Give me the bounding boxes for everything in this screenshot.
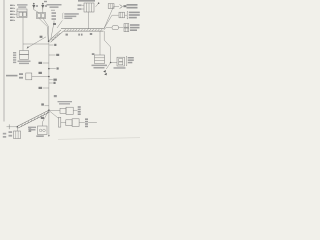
- wire right switch down to harness: [51, 21, 54, 40]
- harness wire number labels: [66, 33, 95, 55]
- junction ground: [48, 76, 50, 78]
- wire pair2 exit: [79, 121, 85, 123]
- wire pin to switch: [15, 13, 17, 15]
- connector ignition: [95, 55, 105, 64]
- label horn: [128, 57, 134, 63]
- wire pair1 exit: [73, 110, 77, 112]
- label row3: [130, 24, 140, 31]
- wire junction to horn: [111, 62, 117, 64]
- label front turn signal jumper: [64, 13, 79, 19]
- wire horizontal to main junction: [23, 43, 49, 45]
- connector mid-left (main/handlebar): [20, 51, 29, 55]
- tick labels 20 / 3: [49, 79, 53, 81]
- ground terminal box: [26, 73, 32, 80]
- label 27: [40, 36, 43, 38]
- tick label 23: [43, 62, 49, 64]
- wire row3 tap: [104, 28, 112, 30]
- horn connector: [117, 57, 125, 66]
- main harness band: [49, 29, 104, 43]
- lamp left front turn signal: [33, 3, 35, 10]
- multipin pin labels: [78, 4, 82, 9]
- bracket row2: [126, 12, 129, 19]
- wire junction to pair1: [49, 109, 60, 111]
- junction label 3: [48, 68, 50, 70]
- page edge artifact: [58, 138, 140, 140]
- label below horn: [114, 67, 126, 69]
- wire fan to right connectors: [104, 7, 119, 29]
- connector row2 inline: [119, 12, 125, 18]
- terminal chevrons bottom: [103, 70, 107, 76]
- label 21: [41, 117, 44, 119]
- label row1: [127, 4, 138, 9]
- label ground lead: [6, 75, 18, 77]
- label ignition connector: [92, 65, 108, 69]
- holder bar pair2: [58, 117, 60, 127]
- wire connector to junction: [43, 19, 49, 41]
- connector pair2: [66, 120, 72, 126]
- frame terminal bar: [8, 124, 10, 129]
- backbone wire down: [48, 41, 50, 110]
- wire 27 diagonal: [27, 37, 46, 48]
- right switch pin labels: [52, 12, 57, 20]
- label above pair1: [58, 101, 73, 105]
- battery harness band bottom: [17, 110, 49, 128]
- wire connector to junction: [39, 19, 48, 41]
- indicator lamps box: [38, 126, 48, 135]
- connector multipin (main to handlebar): [84, 3, 94, 12]
- label 6 with tick: [49, 44, 53, 46]
- hatch marks bottom band: [21, 111, 48, 127]
- page border left rule: [3, 0, 5, 122]
- wire battery connector down: [16, 127, 18, 131]
- wire to indicator lamps box: [43, 110, 49, 126]
- junction bottom: [48, 109, 50, 111]
- bracket horn: [125, 56, 128, 65]
- flag marker: [96, 2, 100, 6]
- tail end arrow: [48, 135, 50, 137]
- label row2: [129, 12, 140, 19]
- wire lamp to connector: [34, 10, 39, 13]
- wire to chevron stub: [106, 63, 110, 70]
- tick label 23 lower: [43, 87, 49, 89]
- wire ground to backbone: [32, 76, 49, 78]
- label below lamps box: [36, 135, 44, 137]
- wire to frame terminal: [10, 126, 18, 128]
- label 25: [39, 72, 42, 74]
- connector row3 pair: [124, 24, 129, 28]
- connector row1 inline: [108, 4, 114, 9]
- junction main: [48, 40, 50, 42]
- label RIGHT TURN SWITCH: [47, 4, 62, 11]
- label 24: [53, 23, 56, 25]
- connector pair1: [60, 108, 66, 113]
- terminal stripes pair2: [85, 118, 88, 127]
- connector front turn signals: [37, 13, 46, 19]
- wire junction to pair2: [49, 111, 59, 119]
- terminal row3 ring: [112, 26, 119, 30]
- label 23 row1: [123, 5, 126, 7]
- tick label 26: [49, 54, 56, 56]
- label main to handlebar harness: [0, 0, 1, 1]
- ground wire color codes: [19, 73, 23, 75]
- wire switch down: [22, 18, 24, 51]
- wire lamp to connector: [42, 10, 44, 13]
- harness hatch marks: [51, 29, 103, 41]
- wire drop to horn: [104, 31, 110, 62]
- label LEFT TURN SWITCH: [17, 4, 28, 8]
- labels battery pins: [3, 131, 12, 138]
- wire bar to pair2: [61, 122, 66, 124]
- connector battery: [14, 131, 21, 139]
- junction battery: [17, 126, 19, 128]
- backbone tail wire: [48, 110, 50, 136]
- label 24 small: [54, 95, 57, 97]
- wire multipin to harness: [88, 12, 90, 29]
- wire pair2 tail arrow: [88, 121, 97, 123]
- label left of lamps box: [28, 127, 36, 131]
- terminal row1 chevron: [120, 5, 123, 9]
- connector left turn switch: [17, 9, 27, 18]
- terminal stripes pair1: [78, 106, 81, 115]
- label handlebar harness caption: [63, 13, 65, 15]
- label right of battery connector: [28, 128, 31, 132]
- pin labels of mid-left connector: [13, 52, 16, 63]
- leader line to jumper label: [57, 20, 62, 28]
- wire labels column (left handlebar pins): [10, 5, 13, 21]
- junction horn: [110, 62, 112, 64]
- label 6 with tick lower: [45, 105, 49, 107]
- label above multipin: [78, 0, 95, 2]
- label below connector: [18, 61, 31, 65]
- wire drop to ignition connector: [99, 31, 101, 55]
- lamp right front turn signal: [42, 3, 44, 10]
